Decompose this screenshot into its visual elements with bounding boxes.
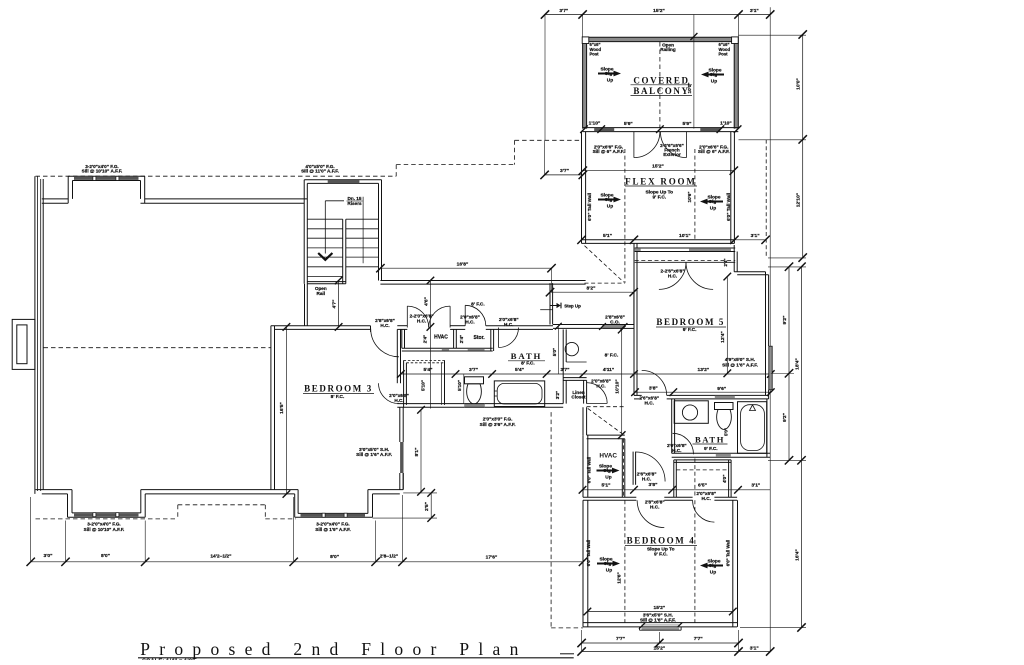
flex bottom dimension line 5'1 10'1 3'1	[577, 236, 585, 244]
svg-text:HVAC: HVAC	[434, 334, 448, 340]
svg-text:3-2'0"x4'0" F.G.: 3-2'0"x4'0" F.G.	[87, 522, 120, 527]
bedroom4 north wall segment3	[714, 496, 737, 498]
svg-text:Step Up: Step Up	[564, 303, 581, 308]
hvac2 west wall	[582, 435, 584, 497]
dimension line 3'8 9'6 bedroom5 south	[635, 391, 771, 393]
bedroom4 window sill tray	[642, 627, 680, 630]
closets bottom wall	[402, 347, 493, 349]
svg-text:7'7": 7'7"	[694, 636, 703, 642]
svg-text:BATH: BATH	[695, 434, 725, 444]
window 3'0x5'0 bedroom3 east	[400, 442, 403, 473]
dimension 5'10 rotated toilet1	[463, 374, 465, 403]
svg-text:Sill @ 10'10" A.F.F.: Sill @ 10'10" A.F.F.	[82, 169, 123, 174]
svg-text:5'1": 5'1"	[602, 483, 611, 489]
svg-text:Risers: Risers	[347, 201, 362, 206]
dimension 15'2 bedroom4	[587, 611, 732, 613]
hvac1/stor divider wall	[453, 329, 455, 348]
svg-text:2'5": 2'5"	[424, 502, 430, 511]
bedroom4 slope arrow right	[700, 563, 723, 569]
bedroom4 south wall	[583, 622, 737, 624]
bedroom3 east wall below window	[399, 473, 401, 490]
svg-text:10'0": 10'0"	[796, 78, 802, 90]
svg-text:Stor.: Stor.	[474, 335, 486, 341]
balcony slope clg up arrow left	[598, 71, 621, 77]
svg-text:3-2'0"x4'0" F.G.: 3-2'0"x4'0" F.G.	[316, 522, 349, 527]
extension line balcony left	[582, 15, 584, 38]
stair down arrow chevron	[318, 253, 332, 260]
svg-text:3'1": 3'1"	[750, 8, 759, 14]
svg-text:H.C.: H.C.	[672, 448, 681, 453]
svg-text:9'2": 9'2"	[782, 316, 788, 325]
bedroom5 south wall segment 2	[667, 394, 769, 396]
svg-text:Post: Post	[719, 51, 729, 56]
svg-text:15'2": 15'2"	[652, 164, 664, 170]
hall east wall	[633, 243, 635, 324]
svg-text:9' F.C.: 9' F.C.	[704, 446, 718, 452]
bedroom5 north wall dashed furr	[635, 260, 736, 262]
bottom-left dimension line 3'0 8'0 14'2-1/2 8'0 2'8-1/2 17'6	[31, 561, 583, 563]
bedroom5 east wall below window	[768, 390, 770, 399]
svg-text:HVAC: HVAC	[599, 452, 617, 459]
closet east wall	[728, 460, 730, 497]
svg-text:BATH: BATH	[511, 351, 542, 361]
svg-text:Up: Up	[605, 475, 611, 481]
dimension 4'11 extension	[633, 292, 635, 324]
extension line balcony right	[738, 15, 740, 38]
bedroom5 east step wall	[733, 245, 735, 272]
dimension line 5'4 3'7 5'4 3'7 4'11 13'2	[401, 373, 771, 375]
hvac2 east wall	[621, 439, 623, 498]
extension line y139 right	[739, 139, 807, 141]
svg-text:Up: Up	[607, 78, 613, 84]
bedroom3 east wall lower	[399, 407, 401, 442]
bedroom4 ceiling dashed lines	[624, 500, 626, 622]
dimension 16'6 hall	[380, 267, 551, 269]
bedroom3 entry door arc	[371, 329, 399, 357]
svg-text:16'5": 16'5"	[279, 402, 285, 414]
svg-text:9' F.C.: 9' F.C.	[683, 327, 697, 333]
dimension 4'6 line	[429, 281, 431, 409]
svg-text:5'4": 5'4"	[515, 367, 524, 373]
bedroom4 slope arrow left	[597, 561, 620, 567]
svg-text:3'7": 3'7"	[560, 168, 569, 174]
bedroom4 east wall	[732, 500, 734, 627]
bedroom3 north wall	[271, 325, 371, 327]
svg-text:1'10": 1'10"	[589, 120, 601, 126]
extension lines bedroom4 bottom	[581, 630, 583, 652]
svg-text:Clg: Clg	[709, 563, 717, 569]
stair east wall	[381, 180, 383, 281]
svg-text:17'6": 17'6"	[486, 554, 498, 560]
svg-text:3'7": 3'7"	[561, 367, 570, 373]
svg-text:6'0" Tall Wall: 6'0" Tall Wall	[587, 457, 592, 484]
dashed diagonal at hvac2 corner	[588, 409, 624, 436]
hall west wall segment	[549, 283, 551, 324]
svg-text:Sill @ 11'0" A.F.F.: Sill @ 11'0" A.F.F.	[301, 169, 339, 174]
svg-text:COVERED: COVERED	[633, 75, 689, 85]
shower enclosure	[403, 360, 405, 407]
svg-text:6'5": 6'5"	[698, 483, 707, 489]
bedroom5 west wall	[633, 325, 635, 396]
step up arrow and text	[551, 303, 562, 309]
svg-text:8' F.C.: 8' F.C.	[605, 352, 619, 358]
dimension 4'7 stair to bedroom3	[338, 281, 340, 327]
svg-text:12'4": 12'4"	[720, 331, 726, 343]
stor east wall	[490, 329, 492, 351]
closet ceiling dashed	[676, 469, 728, 471]
svg-text:10'0": 10'0"	[687, 83, 692, 94]
svg-text:BEDROOM 3: BEDROOM 3	[304, 383, 373, 393]
dimension 15'2 inside flex room	[583, 170, 734, 172]
svg-text:H.C.: H.C.	[650, 505, 659, 510]
svg-text:Sill @ 1'6" A.F.F.: Sill @ 1'6" A.F.F.	[356, 452, 392, 457]
svg-text:7'7": 7'7"	[616, 636, 625, 642]
svg-text:Sill @ 10'10" A.F.F.: Sill @ 10'10" A.F.F.	[84, 527, 125, 532]
svg-text:8'1": 8'1"	[414, 448, 420, 457]
svg-text:2'8–1/2": 2'8–1/2"	[380, 554, 398, 560]
dimension 3'1 right of flex	[734, 239, 765, 241]
svg-text:H.C.: H.C.	[702, 496, 711, 501]
svg-text:4'0": 4'0"	[722, 475, 727, 483]
svg-text:H.C.: H.C.	[394, 398, 403, 403]
balcony bottom wall / house south wall	[583, 127, 739, 129]
svg-text:14'2–1/2": 14'2–1/2"	[210, 554, 231, 560]
chimney outer box	[12, 319, 35, 369]
dimension 10'10 rotated	[621, 330, 623, 436]
french door right leaf arc	[660, 132, 686, 158]
svg-text:Clg: Clg	[605, 71, 613, 77]
svg-text:16'4": 16'4"	[794, 549, 800, 561]
svg-text:H.C.: H.C.	[417, 318, 426, 323]
bedroom4 door1 arc	[637, 500, 664, 527]
window bay bottom2 jog right	[372, 494, 374, 517]
svg-text:8' F.C.: 8' F.C.	[521, 361, 535, 367]
hvac1 double door opening arcs	[407, 306, 428, 327]
bath2 west wall lower	[671, 433, 673, 453]
wall segment C.O. to bedroom5	[625, 324, 635, 326]
left wing north wall long segment	[145, 198, 308, 200]
svg-text:Sill @ 6" A.F.F.: Sill @ 6" A.F.F.	[698, 149, 730, 154]
bath2 east wall	[766, 399, 768, 457]
stair treads lower run	[307, 218, 342, 220]
bedroom3 closet door arc	[379, 383, 399, 403]
svg-text:BEDROOM 4: BEDROOM 4	[627, 535, 696, 545]
toilet bath2 tank	[715, 403, 734, 410]
bath strip north wall segment 2	[450, 325, 465, 327]
svg-text:3'8": 3'8"	[649, 385, 658, 391]
bedroom5 east wall	[765, 272, 767, 396]
svg-text:Proposed 2nd Floor Plan: Proposed 2nd Floor Plan	[140, 639, 527, 659]
svg-text:5'4": 5'4"	[424, 367, 433, 373]
svg-text:9' F.C.: 9' F.C.	[654, 552, 668, 558]
svg-text:Clg: Clg	[709, 199, 717, 205]
bedroom4 north wall segment2	[664, 496, 692, 498]
dimension 8'1 rotated	[420, 410, 422, 492]
open railing dashed line	[659, 42, 661, 128]
stair north wall	[304, 179, 381, 181]
hall wall west of bath2	[632, 452, 634, 485]
extension line y266 right	[768, 266, 806, 268]
dimension 8'2	[550, 291, 634, 293]
stair bottom landing edge / open rail	[307, 281, 346, 283]
stair hall south wall	[380, 280, 585, 282]
svg-text:5'10": 5'10"	[457, 380, 462, 391]
bedroom3 south wall east segment	[368, 489, 403, 491]
svg-text:Clg: Clg	[604, 561, 612, 567]
svg-text:6'0" Tall Wall: 6'0" Tall Wall	[587, 193, 592, 221]
svg-text:9' F.C.: 9' F.C.	[652, 194, 666, 200]
window 2'0x6'6 right in balcony wall	[700, 128, 720, 131]
bath strip north wall segment 3	[486, 325, 553, 327]
left wing south wall long segment	[141, 489, 298, 491]
window bay bottom-left face with 3 windows	[68, 516, 146, 518]
svg-text:BALCONY: BALCONY	[633, 86, 689, 96]
top dimension line 3'7" / 15'2" / 3'1"	[545, 14, 770, 16]
linen closet right wall	[583, 380, 585, 403]
balcony left wall	[583, 37, 587, 128]
wood post top-right	[732, 37, 739, 44]
toilet bath2 bowl	[717, 410, 732, 430]
dimension 5'1 hvac2	[583, 489, 739, 491]
roof overhang dashed jog	[395, 165, 397, 177]
svg-text:3'0": 3'0"	[44, 553, 53, 559]
svg-text:Up: Up	[711, 79, 717, 85]
svg-text:Clg: Clg	[710, 72, 718, 78]
flex ceiling break dashed line right	[694, 149, 696, 240]
svg-text:Railing: Railing	[660, 47, 676, 52]
stair center stringer	[342, 219, 344, 284]
window 2'0x6'6 left in balcony wall	[594, 128, 614, 131]
dashed ceiling line south of linen	[587, 406, 625, 408]
svg-text:Up: Up	[607, 204, 613, 210]
bedroom5 north wall band	[635, 247, 736, 249]
window bay bottom2 jog left	[294, 494, 296, 517]
extension line y373 right	[771, 373, 794, 375]
left wing north wall west segment	[42, 198, 68, 200]
toilet bath1 bowl	[467, 384, 482, 404]
dimension 3'1 right y490	[739, 489, 771, 491]
svg-text:4'7": 4'7"	[331, 300, 337, 309]
bedroom4 bottom dim line 15'2 3'1	[582, 651, 771, 653]
svg-text:H.C.: H.C.	[645, 400, 654, 405]
svg-text:Sill @ 6" A.F.F.: Sill @ 6" A.F.F.	[593, 149, 625, 154]
linen door arc	[586, 383, 607, 404]
cased opening 2'8x6'8 hatch	[602, 325, 624, 329]
svg-text:Sill @ 1'9" A.F.F.: Sill @ 1'9" A.F.F.	[315, 527, 351, 532]
bedroom4 north wall segment1	[583, 496, 636, 498]
extension line far right (full height)	[769, 7, 771, 651]
window bay bottom-left jog right	[144, 494, 146, 517]
bath2 vanity	[674, 401, 708, 424]
window bay top jog left	[67, 176, 69, 203]
svg-text:5'1": 5'1"	[603, 233, 612, 239]
step up line in hall	[540, 309, 552, 311]
flex ceiling break dashed line left	[624, 149, 626, 283]
svg-text:5'9": 5'9"	[683, 121, 692, 127]
right dimension line 9'2 9'2	[788, 267, 790, 461]
tub bath2 faucet	[750, 405, 756, 411]
balcony slope clg up arrow right	[701, 72, 724, 78]
linen closet top wall	[563, 377, 586, 379]
extension line left of balcony	[544, 15, 546, 141]
svg-text:FLEX ROOM: FLEX ROOM	[625, 176, 696, 186]
svg-text:18'4": 18'4"	[794, 358, 800, 370]
roof overhang dashed bottom near bedroom4	[551, 627, 583, 629]
svg-text:9'6": 9'6"	[717, 386, 726, 392]
svg-text:3'1": 3'1"	[750, 645, 759, 651]
hvac2 slope arrow	[597, 468, 620, 474]
svg-text:Up: Up	[710, 570, 716, 576]
bath door arc	[499, 328, 519, 348]
tub bath1	[494, 381, 544, 407]
closet west wall	[673, 460, 675, 497]
svg-text:Up: Up	[606, 568, 612, 574]
interior ceiling-break dashed line left wing	[44, 347, 271, 349]
svg-text:3'7": 3'7"	[469, 367, 478, 373]
bath2 door arc	[673, 433, 694, 454]
open rail wall below stair	[304, 284, 306, 326]
window 2'0x3'0 in south wall	[464, 404, 485, 407]
dimension 16'5 rotated	[285, 327, 287, 494]
svg-text:15'2": 15'2"	[653, 605, 665, 611]
closet north wall	[674, 459, 731, 461]
svg-text:1'10": 1'10"	[720, 120, 732, 126]
dimension 5'0 rotated by sink	[557, 326, 559, 374]
svg-text:Slope Up To: Slope Up To	[647, 546, 675, 552]
bath strip north wall	[397, 325, 407, 327]
bath sink counter	[562, 329, 564, 377]
stor door arc	[465, 305, 486, 326]
right dimension line 10'0 / 12'10	[802, 35, 804, 258]
tub bath2 inner	[741, 405, 765, 451]
extension line y627 right	[740, 627, 806, 629]
svg-text:8'2": 8'2"	[587, 285, 596, 291]
extension line y460 right	[768, 459, 806, 461]
flex room east wall	[730, 132, 732, 244]
svg-text:2'4": 2'4"	[423, 335, 428, 343]
toilet bath1 tank	[465, 377, 484, 384]
bedroom4 bottom dim line 7'7 7'7	[582, 642, 739, 644]
svg-text:6'0" Tall Wall: 6'0" Tall Wall	[586, 540, 591, 567]
svg-text:6'0" Tall Wall: 6'0" Tall Wall	[726, 540, 731, 567]
svg-text:15'2": 15'2"	[653, 645, 665, 651]
hvac1 closet west wall	[401, 329, 403, 348]
flex room south wall	[582, 239, 735, 241]
bedroom3 east wall upper	[396, 329, 398, 383]
svg-text:12'6": 12'6"	[617, 572, 623, 583]
svg-text:Sill @ 3'6" A.F.F.: Sill @ 3'6" A.F.F.	[480, 422, 516, 427]
stair down arrow line	[324, 201, 326, 254]
french door left leaf arc	[634, 132, 660, 158]
svg-text:H.C.: H.C.	[465, 319, 474, 324]
svg-text:H.C.: H.C.	[596, 383, 605, 388]
hall door arc to hvac area	[636, 452, 666, 482]
svg-text:10'6": 10'6"	[687, 192, 692, 203]
svg-text:Clg: Clg	[605, 197, 613, 203]
roof overhang dashed line top	[36, 175, 397, 177]
step up to stair north wall	[303, 180, 305, 284]
window bay bottom-left jog left	[67, 494, 69, 517]
svg-text:10'1": 10'1"	[679, 233, 691, 239]
dimension 12'4 rotated bedroom5	[726, 277, 728, 374]
svg-text:3'1": 3'1"	[751, 233, 760, 239]
svg-text:2'4": 2'4"	[459, 335, 464, 343]
dimension 3'7 left of flex room	[545, 174, 583, 176]
left wing west wall	[34, 176, 36, 494]
wood post top-left	[582, 37, 589, 44]
flex slope clg up arrow right	[700, 199, 723, 205]
svg-text:10'10": 10'10"	[615, 379, 621, 393]
svg-text:16'8": 16'8"	[457, 261, 469, 267]
svg-text:8'0": 8'0"	[330, 554, 339, 560]
roof overhang dashed vertical right of flex	[765, 140, 767, 258]
bedroom5 south door arc	[642, 370, 667, 395]
svg-text:9'2": 9'2"	[782, 413, 788, 422]
roof overhang dashed bottom-left	[36, 518, 178, 520]
svg-text:13'2": 13'2"	[697, 367, 709, 373]
svg-text:Sill @ 1'6" A.F.F.: Sill @ 1'6" A.F.F.	[640, 618, 676, 623]
svg-text:4'6": 4'6"	[423, 297, 429, 306]
svg-text:8' F.C.: 8' F.C.	[331, 394, 345, 400]
svg-text:5'0": 5'0"	[552, 348, 557, 356]
svg-text:4'11": 4'11"	[603, 367, 614, 373]
window bay top jog right	[144, 176, 146, 203]
window bay top face with 3 windows	[68, 175, 145, 177]
chimney inner box	[17, 325, 27, 364]
hvac2 north wall	[587, 434, 625, 436]
svg-text:5'10": 5'10"	[421, 380, 426, 391]
bedroom5 double door opening arcs	[659, 262, 686, 289]
roof overhang dashed vertical right of bedroom3	[550, 412, 552, 628]
bath2 west wall upper	[671, 399, 673, 433]
svg-text:3'8": 3'8"	[649, 482, 658, 488]
svg-text:H.C.: H.C.	[380, 323, 389, 328]
svg-text:Rail: Rail	[317, 291, 326, 296]
extension lines bottom-left dims	[30, 497, 32, 562]
linen closet left wall	[562, 378, 564, 404]
svg-text:8'0": 8'0"	[101, 553, 110, 559]
svg-text:H.C.: H.C.	[642, 476, 651, 481]
extension lines for 2'5	[403, 492, 437, 494]
balcony top wall	[583, 37, 739, 41]
bath hall south wall segment	[553, 324, 602, 326]
window 4'9x5'0 bedroom5 east	[769, 346, 772, 390]
bath strip south wall	[397, 403, 464, 405]
title underline end segment	[560, 653, 574, 655]
bath strip south wall east segment	[485, 403, 563, 405]
svg-text:Up: Up	[710, 206, 716, 212]
bedroom4 door2 arc	[693, 500, 715, 522]
extension line through balcony at 5'9 split	[693, 15, 695, 129]
roof dashed horizontal in hall	[585, 282, 625, 284]
svg-text:3'7": 3'7"	[559, 8, 568, 14]
balcony right wall	[734, 37, 738, 128]
stair guide line upper run	[362, 197, 364, 264]
svg-text:Clg: Clg	[603, 468, 611, 474]
bedroom5 south wall / bath2 north wall	[634, 394, 642, 396]
window bay bottom2 face with 3 windows	[295, 516, 373, 518]
window 3'6x5'0 in south wall	[642, 624, 680, 626]
svg-text:3'1": 3'1"	[751, 483, 760, 489]
extension line right of balcony top	[739, 34, 807, 36]
bath2 south wall	[672, 452, 771, 454]
balcony bottom dimension ticks 1'10 5'9 5'9 1'10	[580, 125, 588, 133]
svg-text:12'10": 12'10"	[796, 193, 802, 207]
bath sink circle	[565, 342, 578, 355]
left wing south wall west segment	[36, 489, 73, 491]
right dimension line 18'4 16'4	[801, 267, 803, 628]
tub bath2 outer	[738, 402, 767, 454]
